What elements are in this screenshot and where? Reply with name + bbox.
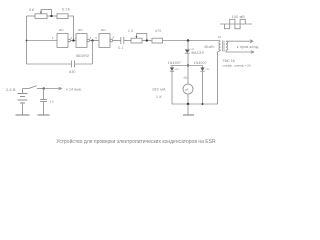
svg-text:150 мА: 150 мА: [152, 88, 166, 92]
node power junction: [43, 87, 45, 89]
node junction gates 1-2: [72, 39, 74, 41]
node junction top: [50, 15, 52, 17]
svg-text:470: 470: [155, 29, 162, 33]
svg-text:45 мГн: 45 мГн: [204, 45, 214, 49]
ground capacitor: [38, 114, 50, 116]
op-amp gate DD1.2 inverter: [76, 34, 87, 48]
op-amp gate DD1.3 inverter: [99, 34, 110, 48]
svg-text:1.0: 1.0: [50, 100, 55, 104]
node junction wiper: [146, 39, 148, 41]
wire rectifier horizontal: [171, 65, 203, 67]
battery GB1: [22, 89, 24, 94]
resistor R1 5K potentiometer: [35, 14, 47, 19]
svg-text:561ЛН2: 561ЛН2: [76, 54, 89, 58]
svg-text:DD1: DD1: [101, 30, 106, 32]
wire pot wiper loop: [137, 34, 147, 41]
wire down to diode: [187, 41, 189, 50]
wire cap to pot: [124, 40, 131, 42]
waveform axis: [220, 23, 252, 25]
node junction detector: [187, 39, 190, 42]
svg-text:Тр1: Тр1: [218, 37, 223, 39]
wire meter to rail: [187, 94, 189, 104]
svg-text:2.6 В: 2.6 В: [6, 88, 16, 92]
wire gate1 out to gate2 in: [71, 40, 76, 42]
svg-text:5: 5: [95, 36, 97, 40]
switch SA1: [30, 86, 37, 89]
svg-text:VD3: VD3: [206, 69, 211, 71]
svg-text:6: 6: [113, 36, 115, 40]
wire left branch down: [171, 71, 173, 104]
svg-text:DD1: DD1: [59, 30, 64, 32]
inductor transformer primary winding: [219, 41, 221, 50]
wire bottom feedback line: [27, 63, 72, 65]
resistor R4 470: [152, 38, 163, 43]
svg-text:5 К: 5 К: [29, 8, 34, 12]
svg-text:коэфф. трансф = 20: коэфф. трансф = 20: [223, 63, 252, 67]
wire probe bottom arrow: [226, 50, 254, 52]
node rectifier: [187, 64, 189, 66]
wire power arrow: [44, 88, 62, 90]
wire cap to feedback vertical: [75, 63, 93, 65]
svg-text:Устройство для проверки электр: Устройство для проверки электролитически…: [56, 138, 216, 145]
wire gate2 out to gate3 in: [90, 40, 99, 42]
node on left rail: [26, 40, 28, 42]
wire bottom rail: [172, 103, 218, 105]
transformer core: [222, 41, 224, 52]
ground: [187, 104, 189, 115]
svg-text:0.1: 0.1: [118, 46, 123, 50]
capacitor C3 1.0: [43, 89, 45, 100]
svg-text:2: 2: [71, 36, 73, 40]
svg-text:1N4007: 1N4007: [194, 61, 207, 65]
wire gate1 input line: [27, 40, 58, 42]
wiper arrowhead: [40, 12, 42, 14]
wire meter branch: [187, 66, 189, 85]
svg-text:μА: μА: [185, 88, 189, 92]
wire feedback down vertical: [92, 41, 94, 65]
wire left rail: [26, 16, 28, 64]
meter PA1 microammeter: [183, 84, 193, 94]
wire probe top arrow: [226, 40, 253, 42]
inductor transformer secondary winding: [226, 41, 228, 50]
wire R2 to feedback vertical: [68, 16, 74, 41]
node meter-rail: [187, 103, 190, 106]
waveform square wave: [225, 19, 246, 28]
wire main to transformer: [163, 40, 221, 42]
wire pot to R470: [142, 40, 152, 42]
svg-text:6.2К: 6.2К: [62, 7, 70, 11]
svg-text:1 К: 1 К: [156, 95, 163, 99]
svg-text:1: 1: [52, 36, 54, 40]
svg-text:к 14 выв.: к 14 выв.: [66, 88, 82, 92]
wire gate3 out: [113, 40, 121, 42]
diode VD2 1N4007: [171, 66, 173, 68]
wire rail up to transformer primary: [218, 50, 221, 104]
svg-text:630: 630: [69, 70, 76, 74]
diode VD3 1N4007: [202, 66, 204, 68]
wire top feedback line left: [27, 15, 36, 17]
resistor R2 6.2K: [57, 14, 68, 19]
svg-text:100 мВ: 100 мВ: [232, 15, 245, 19]
diode VD1 BA159: [185, 50, 190, 54]
wire pot wiper loop: [41, 10, 52, 16]
op-amp gate DD1.1 inverter: [57, 34, 68, 48]
wire right branch down: [202, 71, 204, 104]
wire diode to node: [187, 53, 189, 65]
capacitor C2 0.1: [120, 37, 122, 44]
svg-text:к пров.конд.: к пров.конд.: [237, 45, 260, 49]
node junction gates 2-3: [91, 39, 93, 41]
wire pot to R2: [47, 15, 57, 17]
wiper arrowhead: [135, 36, 137, 38]
svg-text:1N4007: 1N4007: [168, 61, 181, 65]
svg-text:ВА159: ВА159: [192, 51, 204, 55]
ground battery: [16, 114, 30, 116]
svg-text:Ар1: Ар1: [184, 77, 189, 80]
wire battery to switch: [23, 88, 30, 90]
capacitor C1 630: [71, 61, 73, 68]
svg-text:ТМС 1Б: ТМС 1Б: [223, 59, 236, 63]
node right branch rail: [202, 103, 204, 105]
svg-text:DD1: DD1: [78, 30, 83, 32]
svg-text:4: 4: [90, 36, 92, 40]
svg-text:1 К: 1 К: [128, 29, 134, 33]
svg-text:VD2: VD2: [175, 69, 180, 71]
resistor R3 1K potentiometer: [131, 38, 142, 43]
